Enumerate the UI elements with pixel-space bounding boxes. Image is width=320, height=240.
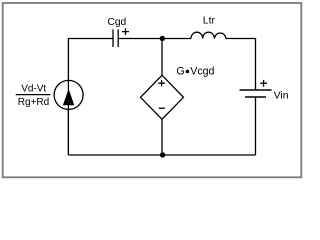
svg-text:Ltr: Ltr xyxy=(203,14,216,26)
svg-text:Cgd: Cgd xyxy=(108,17,127,28)
wire: battery bottom plate down to bottom wire xyxy=(255,97,257,155)
node junction dot bottom xyxy=(160,152,165,157)
dependent source diamond G1 xyxy=(141,75,184,119)
fraction bar of Vd-Vt over Rg+Rd xyxy=(16,94,51,96)
capacitor C (Cgd) plates xyxy=(113,30,118,48)
plus sign near battery xyxy=(260,80,267,87)
node junction dot top xyxy=(160,36,165,41)
svg-text:Rg+Rd: Rg+Rd xyxy=(18,97,49,108)
svg-text:Vd-Vt: Vd-Vt xyxy=(21,84,46,95)
border frame xyxy=(3,3,302,177)
minus sign inside diamond xyxy=(159,107,165,109)
wire: top junction to inductor left end xyxy=(162,38,191,40)
svg-text:Vin: Vin xyxy=(274,90,289,102)
arrow of current source xyxy=(63,89,74,106)
battery Vin top plate xyxy=(240,89,272,91)
inductor Ltr xyxy=(191,32,226,38)
wire: top junction down to diamond top xyxy=(161,39,163,76)
current source circle U1 xyxy=(54,80,83,109)
wire: vertical line through current source xyxy=(67,81,69,156)
svg-text:Vcgd: Vcgd xyxy=(190,66,214,78)
wire: diamond bottom down to bottom junction xyxy=(161,119,163,155)
wire: current source bottom to bottom rail xyxy=(67,109,69,155)
plus sign inside diamond xyxy=(158,80,165,86)
wire: capacitor right plate to top junction xyxy=(118,38,162,40)
wire: bottom rail xyxy=(68,154,255,156)
plus sign near capacitor xyxy=(122,28,129,35)
wire: inductor right end to top-right corner down to battery top plate xyxy=(226,39,256,91)
wire top-left: capacitor left plate to left branch corner down to current source top xyxy=(68,39,113,81)
svg-text:G: G xyxy=(176,66,184,78)
battery Vin bottom plate xyxy=(245,96,266,98)
